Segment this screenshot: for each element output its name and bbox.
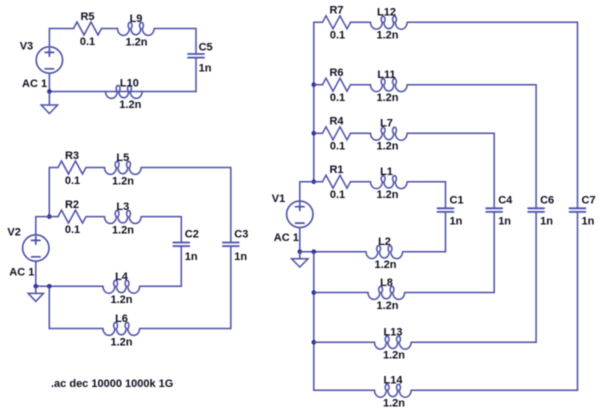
svg-text:L8: L8 xyxy=(380,277,393,289)
svg-text:AC 1: AC 1 xyxy=(9,266,34,278)
svg-text:1.2n: 1.2n xyxy=(112,224,134,236)
svg-text:C7: C7 xyxy=(582,195,596,207)
svg-text:AC 1: AC 1 xyxy=(22,78,47,90)
svg-text:1.2n: 1.2n xyxy=(383,398,405,410)
svg-text:.ac dec 10000 1000k 1G: .ac dec 10000 1000k 1G xyxy=(51,378,173,390)
svg-text:1.2n: 1.2n xyxy=(374,259,396,271)
svg-text:C6: C6 xyxy=(540,195,554,207)
svg-text:C3: C3 xyxy=(234,229,248,241)
svg-text:0.1: 0.1 xyxy=(330,141,345,153)
svg-text:V2: V2 xyxy=(7,227,20,239)
svg-text:1n: 1n xyxy=(185,251,198,263)
svg-text:1.2n: 1.2n xyxy=(376,300,398,312)
svg-text:L11: L11 xyxy=(377,69,395,81)
svg-text:0.1: 0.1 xyxy=(65,175,80,187)
svg-text:1n: 1n xyxy=(199,62,212,74)
svg-text:1.2n: 1.2n xyxy=(376,30,398,42)
svg-text:1.2n: 1.2n xyxy=(110,294,132,306)
svg-text:1n: 1n xyxy=(498,215,511,227)
svg-text:C4: C4 xyxy=(498,195,513,207)
svg-text:L1: L1 xyxy=(380,166,393,178)
svg-text:R3: R3 xyxy=(65,150,79,162)
svg-text:1.2n: 1.2n xyxy=(383,350,405,362)
svg-text:L5: L5 xyxy=(116,152,129,164)
svg-text:1n: 1n xyxy=(582,215,595,227)
svg-text:C2: C2 xyxy=(185,229,199,241)
svg-text:0.1: 0.1 xyxy=(65,224,80,236)
svg-text:1.2n: 1.2n xyxy=(125,36,147,48)
svg-text:0.1: 0.1 xyxy=(80,36,95,48)
svg-text:1n: 1n xyxy=(234,251,247,263)
svg-text:V1: V1 xyxy=(272,193,285,205)
svg-text:R6: R6 xyxy=(329,67,343,79)
svg-text:1.2n: 1.2n xyxy=(119,99,141,111)
svg-text:0.1: 0.1 xyxy=(330,189,345,201)
svg-text:V3: V3 xyxy=(20,41,33,53)
svg-text:1n: 1n xyxy=(450,215,463,227)
svg-text:L13: L13 xyxy=(384,327,403,339)
svg-text:1.2n: 1.2n xyxy=(110,336,132,348)
svg-text:1.2n: 1.2n xyxy=(376,141,398,153)
svg-text:0.1: 0.1 xyxy=(330,92,345,104)
svg-text:L2: L2 xyxy=(378,236,391,248)
svg-text:L4: L4 xyxy=(115,271,129,283)
svg-text:R1: R1 xyxy=(329,164,343,176)
svg-text:L10: L10 xyxy=(120,77,139,89)
svg-text:L12: L12 xyxy=(377,7,396,19)
svg-text:C1: C1 xyxy=(450,195,464,207)
svg-text:1.2n: 1.2n xyxy=(376,189,398,201)
svg-text:1.2n: 1.2n xyxy=(376,92,398,104)
svg-text:L7: L7 xyxy=(380,118,393,130)
svg-text:L6: L6 xyxy=(115,313,128,325)
svg-text:0.1: 0.1 xyxy=(330,30,345,42)
svg-text:R7: R7 xyxy=(329,5,343,17)
svg-text:R2: R2 xyxy=(65,199,79,211)
svg-text:C5: C5 xyxy=(199,42,213,54)
svg-text:L9: L9 xyxy=(130,13,143,25)
svg-text:L3: L3 xyxy=(116,201,129,213)
svg-text:R5: R5 xyxy=(80,11,94,23)
svg-text:AC 1: AC 1 xyxy=(274,232,299,244)
svg-text:R4: R4 xyxy=(329,116,344,128)
svg-text:1n: 1n xyxy=(540,215,553,227)
svg-text:L14: L14 xyxy=(384,375,404,387)
svg-text:1.2n: 1.2n xyxy=(112,175,134,187)
